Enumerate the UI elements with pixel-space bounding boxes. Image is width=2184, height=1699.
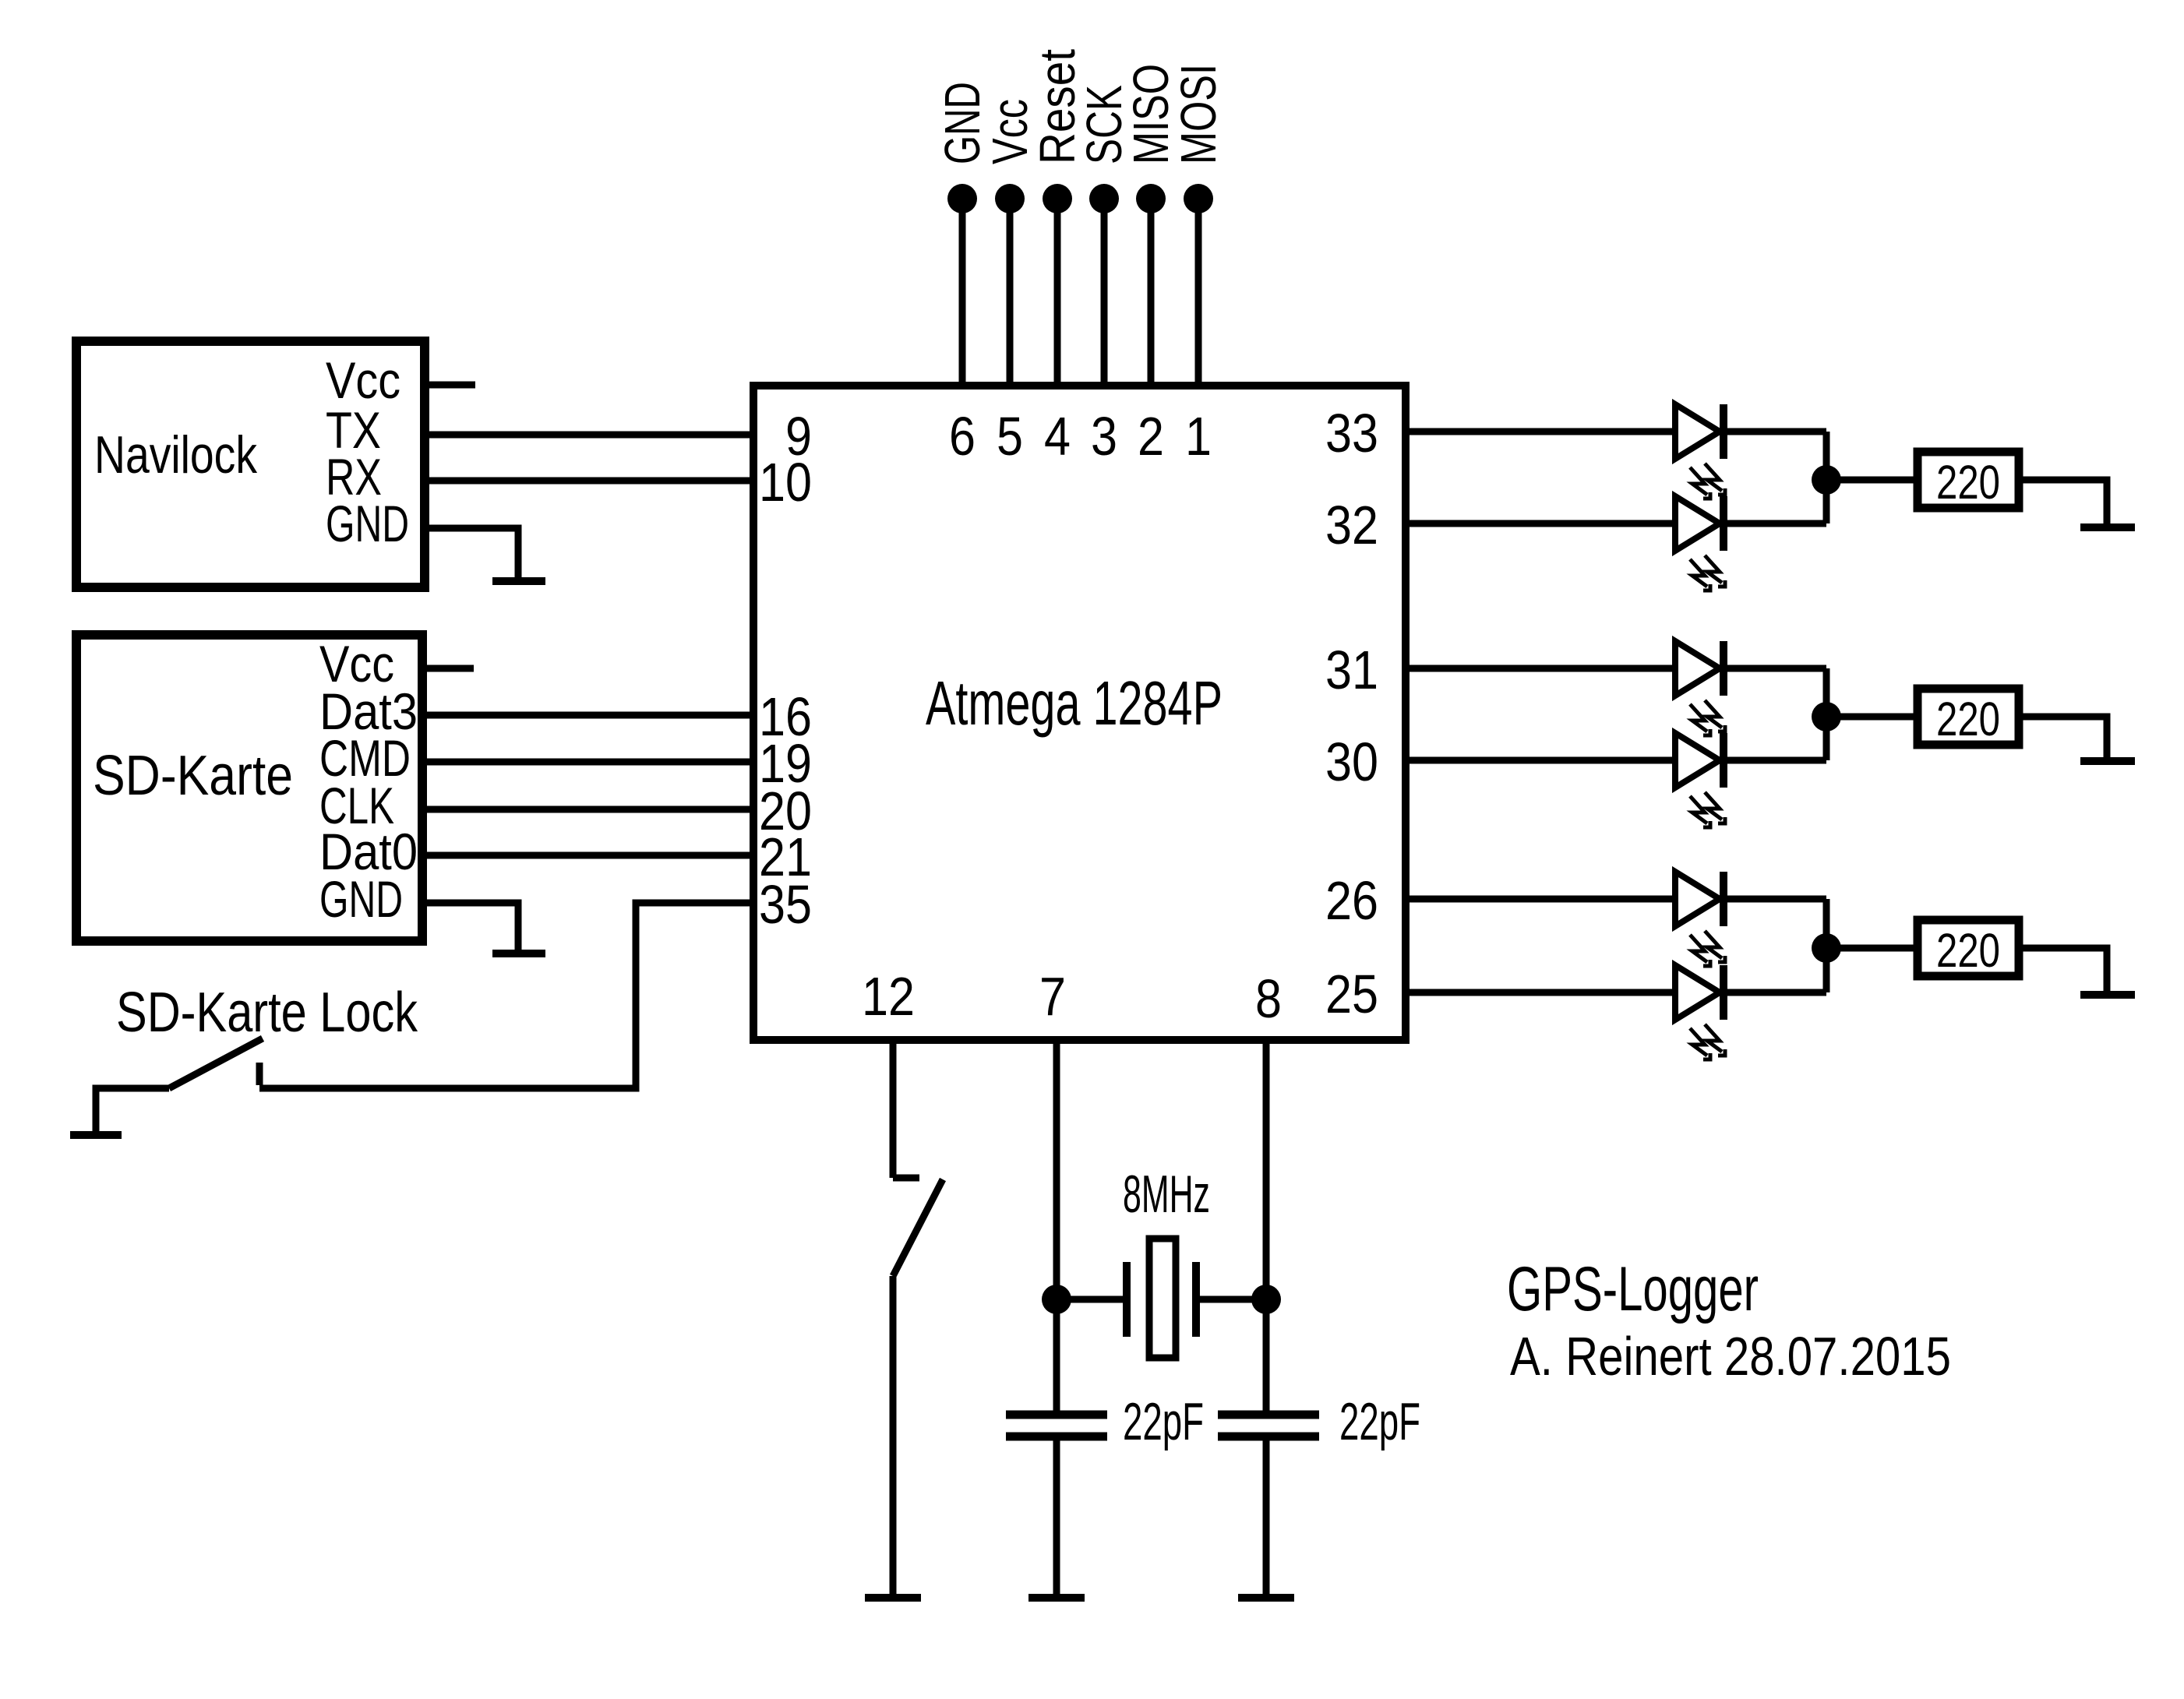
LED D3 <box>1675 641 1725 735</box>
svg-text:220: 220 <box>1936 924 2000 977</box>
svg-text:Atmega 1284P: Atmega 1284P <box>926 668 1223 738</box>
svg-text:35: 35 <box>759 874 812 935</box>
svg-text:GPS-Logger: GPS-Logger <box>1507 1254 1759 1324</box>
wire Navilock GND down <box>429 528 518 577</box>
svg-text:6: 6 <box>949 406 976 467</box>
node junction group2 <box>1812 702 1841 731</box>
ground R2 <box>2080 757 2135 765</box>
svg-text:220: 220 <box>1936 693 2000 746</box>
node MISO dot <box>1136 184 1166 213</box>
wire Navilock RX to pin 10 <box>429 478 753 485</box>
net label Reset <box>1029 49 1085 164</box>
wire pin 31 to LED3 <box>1406 665 1672 672</box>
title text GPS-Logger <box>1507 1254 1759 1324</box>
resistor R3 220 <box>1918 920 2019 977</box>
resistor R2 220 <box>1918 689 2019 746</box>
pin 2 top wire <box>1148 199 1155 390</box>
wire LED3 to junction <box>1727 665 1826 672</box>
pin 6 top wire <box>959 199 966 390</box>
svg-text:8: 8 <box>1255 968 1282 1029</box>
node GND dot <box>947 184 977 213</box>
wire junction to R1 <box>1826 477 1918 484</box>
wire pin 32 to LED2 <box>1406 520 1672 527</box>
title text A. Reinert 28.07.2015 <box>1510 1326 1951 1387</box>
node junction group1 <box>1812 465 1841 495</box>
wire SD GND down <box>427 903 518 950</box>
svg-text:5: 5 <box>997 406 1023 467</box>
svg-text:3: 3 <box>1091 406 1117 467</box>
wire pin 26 to LED5 <box>1406 896 1672 903</box>
resistor R1 220 <box>1918 452 2019 509</box>
wire SD Dat0 to pin 21 <box>427 852 753 859</box>
svg-text:12: 12 <box>862 966 915 1027</box>
svg-text:2: 2 <box>1138 406 1164 467</box>
wire junction to R2 <box>1826 714 1918 721</box>
svg-text:7: 7 <box>1039 966 1066 1027</box>
pin numbers bottom row <box>862 966 1282 1029</box>
ground Navilock <box>492 577 545 585</box>
pin numbers top row 6 5 4 3 2 1 <box>949 406 1212 467</box>
svg-text:Navilock: Navilock <box>94 425 258 485</box>
switch S1 SD-Karte Lock <box>96 982 418 1131</box>
svg-text:Vcc: Vcc <box>326 351 400 409</box>
LED D5 <box>1675 872 1725 966</box>
net label GND <box>934 82 990 164</box>
ground switch S2 <box>865 1594 921 1602</box>
svg-text:SD-Karte Lock: SD-Karte Lock <box>116 982 418 1044</box>
svg-text:A. Reinert 28.07.2015: A. Reinert 28.07.2015 <box>1510 1326 1951 1387</box>
node Vcc dot <box>995 184 1025 213</box>
node XTAL2 dot <box>1251 1285 1281 1314</box>
wire R1 to ground <box>2019 480 2107 523</box>
node junction group3 <box>1812 933 1841 963</box>
svg-text:4: 4 <box>1044 406 1071 467</box>
node XTAL1 dot <box>1042 1285 1071 1314</box>
pin 1 top wire <box>1195 199 1202 390</box>
wire Navilock TX to pin 9 <box>429 432 753 439</box>
wire pin 35 to switch <box>259 903 753 1088</box>
svg-text:1: 1 <box>1185 406 1212 467</box>
svg-text:8MHz: 8MHz <box>1123 1165 1210 1224</box>
svg-text:220: 220 <box>1936 456 2000 509</box>
svg-text:26: 26 <box>1325 870 1378 931</box>
svg-text:10: 10 <box>759 452 812 513</box>
pin numbers left column <box>759 406 812 935</box>
svg-text:32: 32 <box>1325 495 1378 555</box>
wire junction riser group1 <box>1823 432 1830 523</box>
LED D4 <box>1675 733 1725 827</box>
svg-text:GND: GND <box>319 870 403 928</box>
pin numbers right column <box>1325 403 1378 1024</box>
pin 3 top wire <box>1101 199 1108 390</box>
wire junction riser group2 <box>1823 668 1830 760</box>
wire LED1 to junction <box>1727 428 1826 435</box>
wire R2 to ground <box>2019 717 2107 757</box>
net label SCK <box>1076 85 1132 164</box>
svg-text:22pF: 22pF <box>1123 1392 1204 1451</box>
svg-text:SD-Karte: SD-Karte <box>93 745 293 807</box>
IC U1 Atmega 1284P body <box>753 386 1406 1040</box>
pin 5 top wire <box>1007 199 1014 390</box>
wire Navilock Vcc stub <box>429 382 475 389</box>
wire pin 12 down <box>890 1040 897 1178</box>
ground SD-Karte <box>492 950 545 957</box>
wire pin 33 to LED1 <box>1406 428 1672 435</box>
wire LED2 to junction <box>1727 520 1826 527</box>
wire junction riser group3 <box>1823 899 1830 992</box>
LED D6 <box>1675 965 1725 1059</box>
svg-text:33: 33 <box>1325 403 1378 464</box>
svg-text:MOSI: MOSI <box>1170 64 1226 164</box>
svg-text:30: 30 <box>1325 731 1378 792</box>
wire LED4 to junction <box>1727 757 1826 764</box>
wire pin 7 down <box>1053 1040 1060 1299</box>
ground R3 <box>2080 991 2135 999</box>
ground R1 <box>2080 523 2135 531</box>
wire SD CLK to pin 20 <box>427 806 753 813</box>
wire junction to R3 <box>1826 945 1918 952</box>
capacitor C1 22pF <box>1006 1299 1204 1594</box>
svg-text:31: 31 <box>1325 640 1378 700</box>
capacitor C2 22pF <box>1218 1299 1420 1594</box>
LED D2 <box>1675 496 1725 590</box>
wire LED6 to junction <box>1727 989 1826 996</box>
svg-text:22pF: 22pF <box>1339 1392 1420 1451</box>
svg-text:25: 25 <box>1325 964 1378 1024</box>
node Reset dot <box>1043 184 1072 213</box>
wire SD Vcc stub <box>427 665 474 672</box>
wire LED5 to junction <box>1727 896 1826 903</box>
ground C2 <box>1238 1594 1294 1602</box>
wire SD CMD to pin 19 <box>427 759 753 766</box>
LED D1 <box>1675 404 1725 499</box>
module Navilock box <box>76 341 425 587</box>
switch S2 at pin 12 <box>893 1178 943 1594</box>
wire pin 25 to LED6 <box>1406 989 1672 996</box>
wire pin 30 to LED4 <box>1406 757 1672 764</box>
crystal Q1 8MHz <box>1057 1165 1266 1358</box>
svg-text:GND: GND <box>326 495 409 552</box>
ground switch S1 <box>70 1131 122 1139</box>
node SCK dot <box>1089 184 1119 213</box>
net label MOSI <box>1170 64 1226 164</box>
ground C1 <box>1028 1594 1085 1602</box>
wire pin 8 down <box>1263 1040 1270 1299</box>
wire R3 to ground <box>2019 948 2107 991</box>
node MOSI dot <box>1184 184 1213 213</box>
module SD-Karte box <box>76 635 422 941</box>
net label Vcc <box>982 99 1038 164</box>
pin 4 top wire <box>1054 199 1061 390</box>
net label MISO <box>1123 64 1179 164</box>
wire SD Dat3 to pin 16 <box>427 712 753 719</box>
